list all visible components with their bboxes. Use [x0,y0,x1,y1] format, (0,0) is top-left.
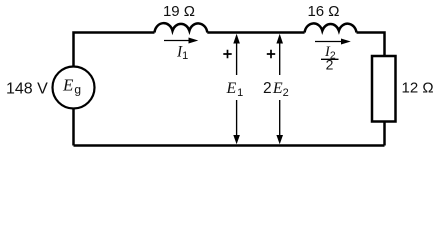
resistor R (12 ohm rectangle) [372,56,396,122]
current arrow I1 [164,38,198,44]
voltage arrow 2E2 down [276,100,283,144]
svg-text:2E2: 2E2 [263,80,289,99]
voltage arrow E1 down [233,100,240,144]
wire: resistor bottom down to bottom rail [383,122,386,146]
inductor L1 (19 ohm coil) [155,23,208,32]
svg-text:I1: I1 [176,44,188,63]
plus sign for E1 [223,50,231,58]
source Eg circle [53,67,95,109]
inductor L2 (16 ohm coil) [305,23,357,32]
svg-text:2: 2 [326,57,334,73]
svg-text:12 Ω: 12 Ω [402,80,434,97]
plus sign for 2E2 [267,50,275,58]
svg-text:148 V: 148 V [6,81,48,98]
svg-text:E1: E1 [226,80,244,99]
svg-text:19 Ω: 19 Ω [163,3,195,20]
current label fraction I2 over 2 [321,44,339,73]
svg-text:16 Ω: 16 Ω [307,3,339,20]
wire: top right from L2 down to resistor top [357,33,385,57]
voltage arrow E1 up [233,34,240,75]
svg-text:Eg: Eg [62,76,81,97]
wire: left vertical bottom segment [72,109,75,146]
wire: bottom rail [74,144,385,147]
wire: top middle between L1 and L2 [207,31,304,34]
voltage arrow 2E2 up [276,34,283,75]
current arrow I2/2 [315,39,351,45]
wire: left vertical top + top-left horizontal run to L1 [74,33,155,68]
